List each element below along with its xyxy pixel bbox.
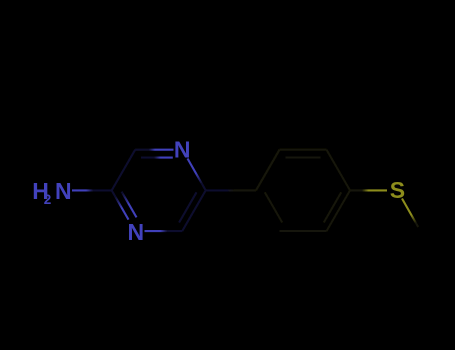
- svg-text:N: N: [174, 137, 191, 163]
- svg-text:2: 2: [44, 192, 52, 207]
- svg-text:S: S: [390, 177, 405, 203]
- svg-text:N: N: [55, 178, 72, 204]
- svg-text:N: N: [128, 219, 145, 245]
